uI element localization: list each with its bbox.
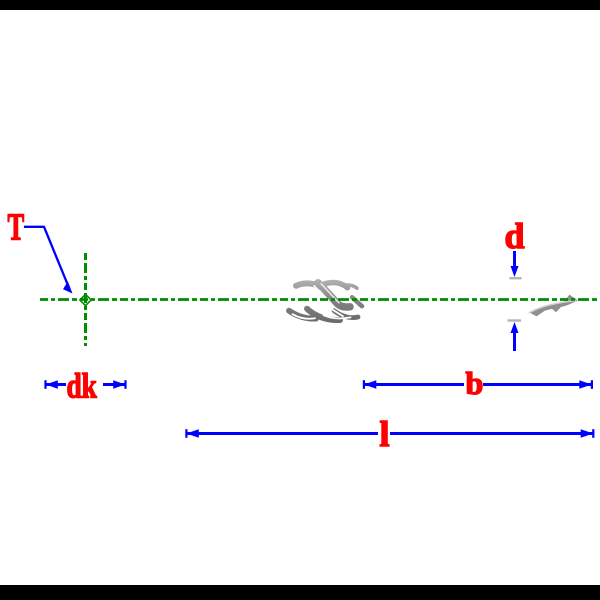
center mark diamond: [80, 294, 91, 305]
dk dimension line left segment with outward arrow: [46, 383, 66, 386]
d lower extension tick: [508, 319, 522, 321]
white gap left flank of central diagonal: [314, 286, 323, 295]
strand central big diagonal: [318, 283, 350, 307]
strand bottom-left leaf: [289, 311, 316, 319]
white twist line 2: [287, 295, 311, 306]
svg-text:dk: dk: [66, 366, 97, 405]
svg-text:T: T: [8, 205, 25, 247]
b dimension line right segment: [483, 383, 592, 386]
svg-text:l: l: [380, 414, 390, 454]
tip top highlight: [529, 301, 576, 313]
l dimension line right segment: [390, 432, 593, 435]
d upper arrow (pointing down): [513, 251, 516, 268]
d lower arrow (pointing up): [511, 322, 519, 333]
white crescent bottom-right: [324, 315, 351, 318]
dk dimension line right segment with outward arrow: [103, 383, 125, 386]
leader arrowhead: [63, 281, 73, 293]
strand top-left leaf: [296, 283, 323, 288]
white twist line 3: [320, 302, 343, 317]
b dimension line left segment: [364, 383, 464, 386]
vertical center line of head (green dash-dot axis): [84, 253, 87, 346]
d upper extension tick: [510, 277, 522, 279]
leader line from T to head center: [24, 227, 70, 289]
highlight on central diagonal: [321, 284, 339, 303]
white twist line 1: [298, 290, 326, 302]
strand right-mid bit: [352, 297, 362, 306]
bottom black bar: [0, 585, 600, 600]
top black bar: [0, 0, 600, 10]
svg-text:d: d: [505, 216, 525, 256]
strand bottom-mid: [307, 309, 340, 320]
white crescent bottom-left: [293, 314, 316, 319]
strand top-right dash: [345, 285, 357, 288]
strand top-mid leaf: [325, 283, 348, 288]
svg-text:b: b: [466, 365, 484, 401]
tip barb: [564, 295, 579, 303]
screw tip: [528, 295, 579, 317]
horizontal center line (green dash-dot axis): [40, 298, 600, 301]
strand bottom-right leaf: [334, 311, 358, 318]
l dimension line left segment: [187, 432, 379, 435]
thread swirl (twisted shank): [287, 283, 363, 320]
